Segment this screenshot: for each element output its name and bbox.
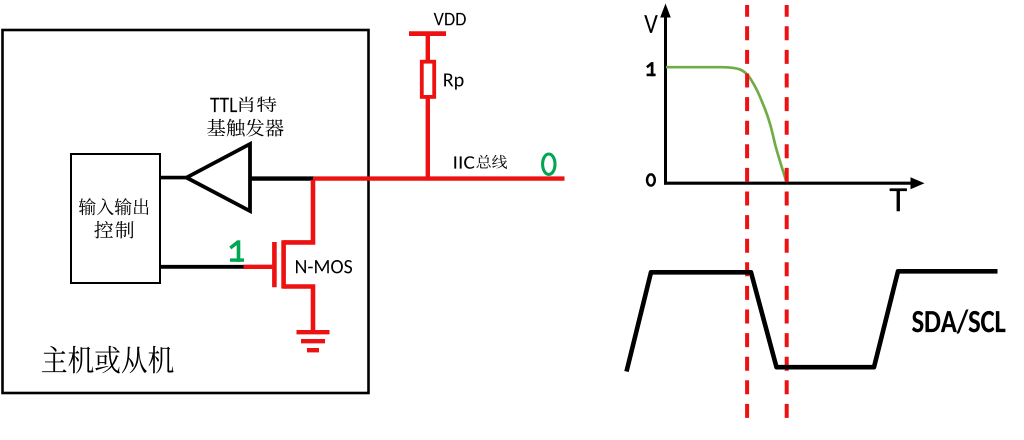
wire: I/O control to schmitt buffer input [159, 176, 188, 180]
resistor Rp body [422, 62, 434, 97]
transistor Q1 N-MOS: gate bar [272, 242, 277, 287]
label 总线 of IIC总线 [476, 155, 507, 169]
transistor Q1 N-MOS: drain lead to bus [284, 180, 313, 242]
label 主机或从机 (host or slave) [42, 346, 174, 374]
label 控制 (control) [94, 221, 133, 239]
wire: VDD to bus through Rp [426, 34, 430, 178]
axis label V [644, 15, 658, 33]
label IIC of IIC总线 [454, 156, 474, 169]
enclosure box: host/slave device [3, 30, 369, 393]
label 基触发器 (schmitt trigger) [207, 119, 284, 137]
schmitt trigger buffer U1 (TTL) [187, 144, 251, 211]
inner box: I/O control [71, 154, 160, 283]
graph T axis (horizontal) [664, 177, 925, 189]
wire: gate drive from I/O control (black) [159, 265, 244, 269]
SDA/SCL trapezoid waveform [627, 271, 998, 371]
label N-MOS [296, 260, 352, 273]
ground symbol (red) [297, 332, 330, 350]
label VDD [434, 13, 466, 25]
IIC bus wire (red) [313, 176, 565, 180]
axis label T [890, 188, 907, 211]
label SDA/SCL [912, 309, 1005, 333]
label 肖特 of TTL肖特 [239, 97, 276, 113]
power rail VDD bar [409, 31, 446, 36]
axis tick label 1 [647, 62, 656, 76]
transistor Q1 N-MOS: source lead down [284, 287, 313, 332]
label logic 0 (green) on bus [543, 154, 555, 174]
label 输入输出 (input/output) [79, 198, 149, 215]
label TTL of TTL肖特 [210, 98, 237, 112]
threshold window dashed line 1 (red) [745, 5, 749, 425]
graph V axis (vertical) [660, 4, 671, 185]
threshold window dashed line 2 (red) [785, 5, 789, 425]
transistor Q1 N-MOS: channel bar [281, 240, 286, 288]
axis tick label 0 [647, 174, 655, 185]
wire: gate lead (red) [244, 265, 273, 269]
label logic 1 (green) on gate wire [230, 240, 244, 261]
wire: buffer output to bus node (black) [250, 176, 314, 180]
label Rp [444, 73, 463, 89]
falling edge curve (green) [666, 67, 786, 181]
